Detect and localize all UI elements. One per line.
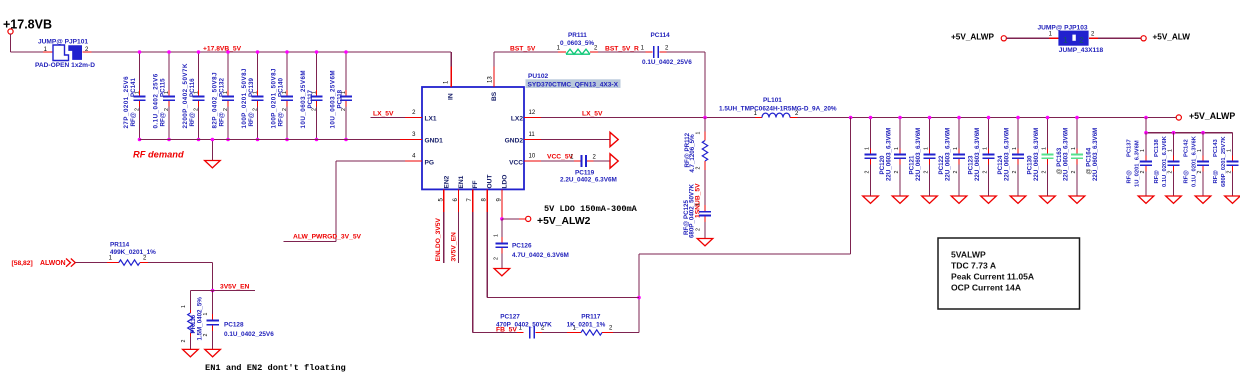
svg-text:PAD-OPEN 1x2m-D: PAD-OPEN 1x2m-D [35,62,95,69]
svg-text:ENLDO_3V5V: ENLDO_3V5V [435,217,442,261]
svg-text:1.5UH_TMPC0624H-1R5MG-D_9A_20%: 1.5UH_TMPC0624H-1R5MG-D_9A_20% [719,106,837,113]
svg-text:RF@: RF@ [1183,170,1189,184]
svg-text:+5V_ALWP: +5V_ALWP [951,32,995,41]
svg-text:PR114: PR114 [110,241,130,248]
svg-text:1: 1 [1197,149,1203,152]
svg-text:PC137: PC137 [1126,139,1132,157]
svg-text:+17.8VB_5V: +17.8VB_5V [203,45,242,52]
svg-text:1: 1 [181,305,187,308]
svg-text:2: 2 [864,171,870,174]
svg-text:27P_0201_25V6: 27P_0201_25V6 [123,76,130,129]
svg-text:EN1 and EN2 dont't floating: EN1 and EN2 dont't floating [205,363,346,373]
svg-text:470P_0402_50V7K: 470P_0402_50V7K [496,321,552,328]
svg-text:EN1: EN1 [458,175,465,188]
svg-text:TDC 7.73 A: TDC 7.73 A [951,260,996,270]
svg-text:2: 2 [982,171,988,174]
svg-text:PG: PG [425,160,435,167]
svg-text:LX_5V: LX_5V [582,110,603,117]
svg-text:2: 2 [341,108,347,111]
svg-text:ALWON: ALWON [40,260,66,267]
svg-text:4.7U_0402_6.3V6M: 4.7U_0402_6.3V6M [512,252,569,259]
svg-text:2: 2 [1079,36,1084,45]
svg-text:499K_0201_1%: 499K_0201_1% [110,249,156,256]
svg-text:PR117: PR117 [581,313,601,320]
svg-text:IN: IN [448,93,455,100]
svg-text:PU102: PU102 [528,73,548,80]
svg-text:VCC: VCC [509,160,523,167]
svg-text:BST_5V: BST_5V [510,45,536,52]
svg-text:1: 1 [494,234,500,237]
svg-text:1: 1 [1041,147,1047,150]
svg-text:22U_0603_6.3V6M: 22U_0603_6.3V6M [1063,128,1070,181]
svg-text:680P_0201_25V7K: 680P_0201_25V7K [1221,136,1227,187]
svg-text:SYD370CTMC_QFN13_4X3-X: SYD370CTMC_QFN13_4X3-X [528,81,619,88]
svg-text:2: 2 [1168,171,1174,174]
svg-text:2: 2 [1197,171,1203,174]
svg-text:RF@: RF@ [1154,170,1160,184]
svg-text:1: 1 [1071,147,1077,150]
svg-text:1: 1 [923,147,929,150]
svg-text:2: 2 [953,171,959,174]
svg-text:3V5V_EN: 3V5V_EN [220,283,250,290]
svg-text:0.1U_0402_25V6: 0.1U_0402_25V6 [642,59,692,66]
svg-text:0.1U_0402_25V6: 0.1U_0402_25V6 [224,331,274,338]
svg-text:1: 1 [134,91,140,94]
svg-text:2: 2 [1041,171,1047,174]
svg-text:2: 2 [1012,171,1018,174]
svg-text:1: 1 [252,91,258,94]
svg-text:RF@: RF@ [1126,170,1132,184]
svg-text:RF@: RF@ [278,112,285,126]
svg-text:2.2U_0402_6.3V6M: 2.2U_0402_6.3V6M [560,177,617,184]
svg-text:PC119: PC119 [575,169,595,176]
svg-text:2: 2 [223,108,229,111]
svg-text:22U_0603_6.3V6M: 22U_0603_6.3V6M [886,128,893,181]
svg-text:1: 1 [193,91,199,94]
svg-text:2: 2 [193,108,199,111]
svg-text:2: 2 [1071,171,1077,174]
svg-text:[58,82]: [58,82] [12,260,33,267]
svg-text:22U_0603_6.3V6M: 22U_0603_6.3V6M [945,128,952,181]
svg-text:3V5V_EN: 3V5V_EN [450,232,457,262]
svg-text:2: 2 [164,108,170,111]
svg-text:22U_0603_6.3V6M: 22U_0603_6.3V6M [974,128,981,181]
svg-text:EN2: EN2 [443,175,450,188]
svg-text:1K_0201_1%: 1K_0201_1% [567,321,606,328]
svg-text:PC128: PC128 [224,321,244,328]
svg-text:OUT: OUT [487,175,494,189]
svg-text:5VALWP: 5VALWP [951,249,986,259]
svg-text:1: 1 [1012,147,1018,150]
svg-text:11: 11 [529,132,536,138]
svg-text:GND2: GND2 [505,138,524,145]
svg-text:0.1U_0402_25V6: 0.1U_0402_25V6 [153,73,160,128]
svg-text:2: 2 [695,228,701,231]
svg-text:100P_0201_50V8J: 100P_0201_50V8J [271,68,278,129]
svg-text:PC114: PC114 [651,32,671,39]
svg-text:1: 1 [311,91,317,94]
svg-text:0_0603_5%: 0_0603_5% [560,40,594,47]
svg-text:GND1: GND1 [425,138,444,145]
svg-text:2: 2 [894,171,900,174]
svg-text:22U_0603_6.3V6M: 22U_0603_6.3V6M [915,128,922,181]
svg-text:ALW_PWRGD_3V_5V: ALW_PWRGD_3V_5V [293,233,362,240]
svg-text:1: 1 [1168,149,1174,152]
svg-text:22U_0603_6.3V6M: 22U_0603_6.3V6M [1004,128,1011,181]
svg-text:1: 1 [282,91,288,94]
svg-text:RF@: RF@ [219,112,226,126]
svg-text:1: 1 [1140,149,1146,152]
svg-text:BS: BS [491,91,498,101]
svg-text:+5V_ALWP: +5V_ALWP [1189,111,1235,121]
svg-text:5V LDO 150mA-300mA: 5V LDO 150mA-300mA [544,204,638,214]
svg-text:2: 2 [311,108,317,111]
svg-text:1: 1 [953,147,959,150]
svg-text:12: 12 [529,110,536,116]
svg-text:RF@: RF@ [189,112,196,126]
svg-text:22U_0603_6.3V6M: 22U_0603_6.3V6M [1092,128,1099,181]
svg-text:LDO: LDO [501,175,508,189]
svg-text:13: 13 [488,76,494,83]
svg-text:1: 1 [341,91,347,94]
svg-text:PR111: PR111 [568,32,587,39]
svg-text:RF@: RF@ [248,112,255,126]
svg-text:PC138: PC138 [1154,138,1160,157]
svg-text:1: 1 [1063,36,1068,45]
svg-text:PC142: PC142 [1183,139,1189,157]
svg-text:PC126: PC126 [512,243,532,250]
svg-text:JUMP@ PJP101: JUMP@ PJP101 [38,39,88,46]
svg-text:2: 2 [181,340,187,343]
svg-text:JUMP@ PJP103: JUMP@ PJP103 [1038,25,1088,32]
svg-text:1: 1 [864,147,870,150]
svg-text:LX2: LX2 [511,116,523,123]
svg-text:0.1U_0201_6.3V6K: 0.1U_0201_6.3V6K [1162,135,1168,187]
svg-text:Peak Current 11.05A: Peak Current 11.05A [951,271,1034,281]
svg-text:0.1U_0201_6.3V6K: 0.1U_0201_6.3V6K [1191,135,1197,187]
svg-text:2: 2 [282,108,288,111]
svg-text:JUMP_43X118: JUMP_43X118 [1059,47,1104,54]
svg-text:RF demand: RF demand [133,150,184,160]
svg-text:1: 1 [164,91,170,94]
svg-text:RF@: RF@ [1213,170,1219,184]
svg-text:22U_0603_6.3V6M: 22U_0603_6.3V6M [1033,128,1040,181]
svg-text:LX1: LX1 [425,116,437,123]
svg-text:82P_0402_50V8J: 82P_0402_50V8J [212,72,219,129]
svg-text:1: 1 [223,91,229,94]
svg-text:2: 2 [134,108,140,111]
svg-text:1: 1 [894,147,900,150]
svg-text:LX_5V: LX_5V [373,110,394,117]
svg-text:1: 1 [982,147,988,150]
svg-text:+5V_ALW2: +5V_ALW2 [537,216,591,227]
svg-text:PC143: PC143 [1213,138,1219,157]
svg-text:1: 1 [695,132,701,135]
svg-text:2: 2 [923,171,929,174]
svg-text:2: 2 [494,257,500,260]
svg-text:1U_0201_6.3V6M: 1U_0201_6.3V6M [1134,140,1140,187]
svg-text:OCP Current 14A: OCP Current 14A [951,282,1021,292]
svg-text:2: 2 [252,108,258,111]
svg-text:10U_0603_25V6M: 10U_0603_25V6M [330,70,337,129]
svg-text:FF: FF [472,180,479,188]
svg-text:2: 2 [695,167,701,170]
svg-text:1: 1 [1227,149,1233,152]
svg-text:BST_5V_R: BST_5V_R [605,45,639,52]
svg-text:RF@: RF@ [130,112,137,126]
svg-text:PC127: PC127 [500,313,520,320]
svg-text:2: 2 [1140,171,1146,174]
svg-text:2200P_0402_50V7K: 2200P_0402_50V7K [182,63,189,128]
svg-text:PL101: PL101 [763,97,782,104]
svg-text:RF@: RF@ [160,112,167,126]
svg-text:1: 1 [203,313,209,316]
svg-text:1: 1 [695,203,701,206]
svg-text:2: 2 [1227,171,1233,174]
svg-text:10: 10 [529,154,536,160]
svg-text:100P_0201_50V8J: 100P_0201_50V8J [241,68,248,129]
svg-text:2: 2 [203,334,209,337]
svg-text:+5V_ALW: +5V_ALW [1153,33,1191,42]
svg-text:10U_0603_25V6M: 10U_0603_25V6M [300,70,307,129]
